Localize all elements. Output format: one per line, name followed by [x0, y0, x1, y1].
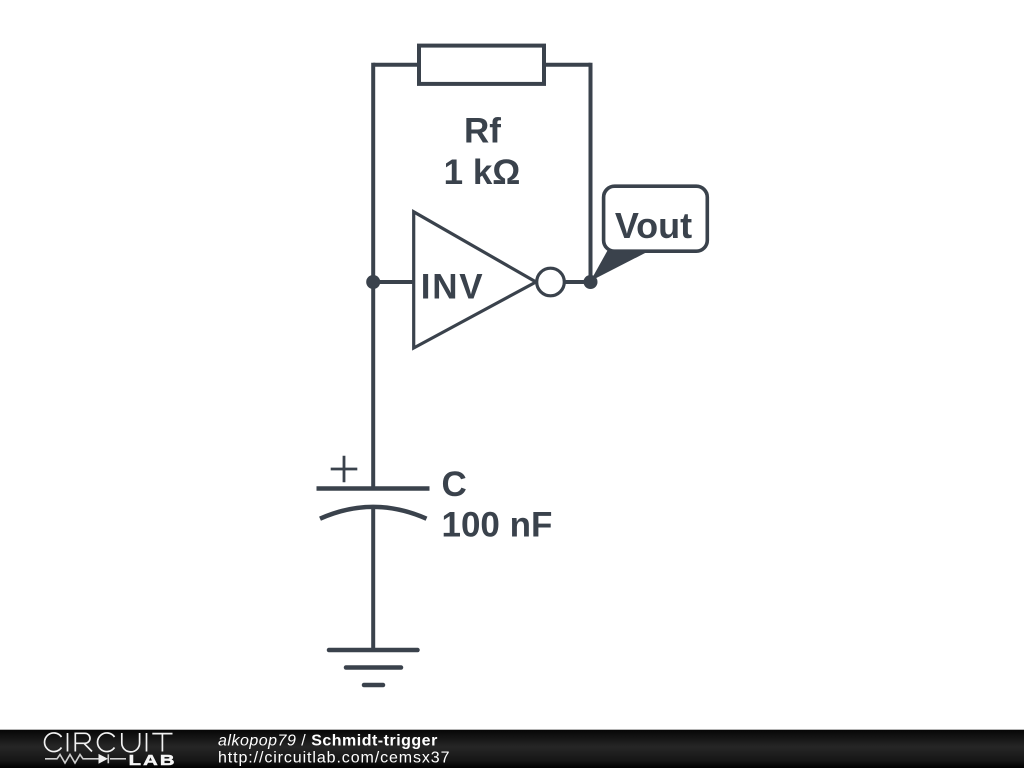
- wire: right vertical (resistor to output): [589, 63, 593, 282]
- svg-text:INV: INV: [421, 267, 484, 306]
- svg-text:100 nF: 100 nF: [442, 506, 553, 545]
- ground bar 3: [364, 683, 383, 688]
- capacitor C1 plus sign: [331, 456, 358, 483]
- wire: feedback loop right horizontal: [543, 63, 591, 67]
- op-amp U1 inverter triangle: [414, 212, 536, 348]
- svg-text:http://circuitlab.com/cemsx37: http://circuitlab.com/cemsx37: [218, 749, 450, 766]
- wire: inverter bubble to output node: [564, 280, 591, 284]
- capacitor C1 bottom curved plate: [320, 507, 427, 519]
- logo resistor-diode squiggle: [45, 754, 126, 763]
- Vout flag bubble: [604, 186, 708, 251]
- Vout flag tail: [591, 251, 651, 282]
- svg-text:1 kΩ: 1 kΩ: [444, 153, 521, 192]
- node A junction dot (input): [366, 275, 380, 289]
- resistor Rf: [419, 46, 544, 84]
- svg-text:C: C: [442, 465, 467, 504]
- svg-text:alkopop79 / Schmidt-trigger: alkopop79 / Schmidt-trigger: [218, 732, 438, 749]
- wire: capacitor bottom to ground: [371, 505, 375, 650]
- node Vout junction dot (output): [584, 275, 598, 289]
- inverter output bubble: [537, 268, 565, 296]
- logo word LAB: [129, 751, 177, 768]
- CircuitLab logo word CIRCUIT (drawn strokes): [45, 733, 173, 752]
- wire: input horizontal to inverter: [373, 280, 415, 284]
- wire: feedback loop left horizontal: [373, 63, 420, 67]
- ground bar 2: [346, 665, 401, 670]
- logo diode triangle: [99, 754, 109, 764]
- ground bar 1: [329, 648, 418, 653]
- svg-text:LAB: LAB: [129, 751, 177, 768]
- capacitor C1 top plate: [317, 486, 430, 491]
- wire: left vertical (node A down to capacitor): [371, 63, 375, 489]
- svg-text:Rf: Rf: [464, 112, 501, 151]
- svg-text:Vout: Vout: [615, 205, 692, 246]
